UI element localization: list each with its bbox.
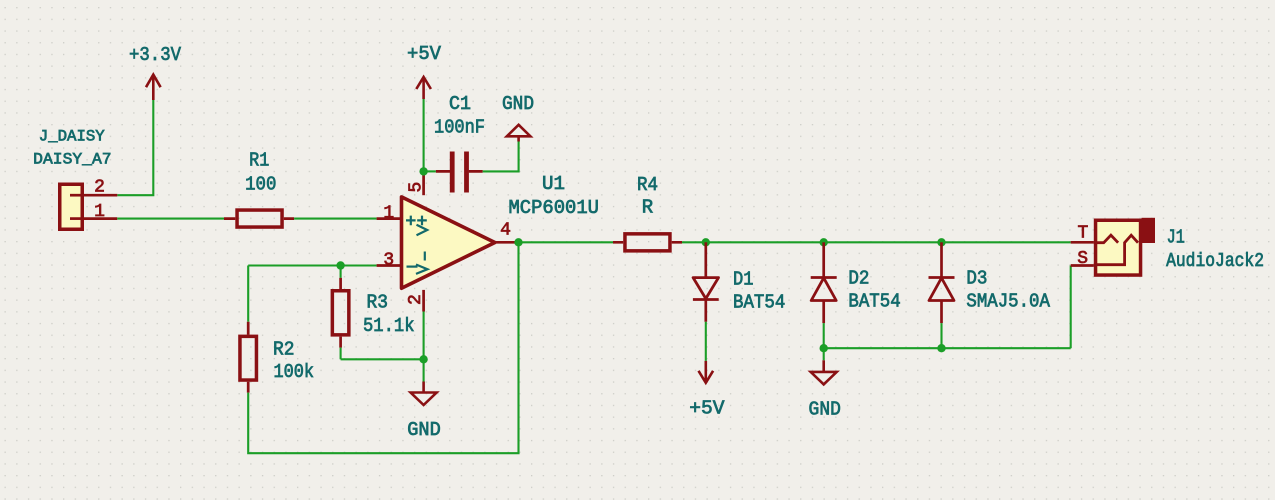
diode D1 [693, 242, 785, 321]
svg-text:R: R [642, 197, 653, 219]
ground GND (top, rotated) [502, 93, 534, 142]
junction: D2 lower [820, 344, 828, 352]
op-amp pin 4 [495, 221, 517, 243]
svg-text:4: 4 [500, 221, 511, 241]
resistor R1 [224, 150, 294, 227]
power +5V (down) [689, 361, 725, 419]
svg-text:BAT54: BAT54 [848, 291, 900, 313]
diode D2 [811, 242, 901, 323]
op-amp pin 3 [377, 251, 400, 271]
svg-text:1: 1 [383, 204, 394, 224]
minus input marker [407, 266, 418, 268]
junction: D3 lower [937, 344, 945, 352]
svg-text:BAT54: BAT54 [733, 292, 785, 314]
plus input marker [406, 216, 416, 226]
wire: feedback left drop to R2 [247, 266, 249, 322]
svg-text:GND: GND [407, 419, 441, 441]
J1 pin S [1071, 249, 1094, 269]
svg-text:R1: R1 [249, 150, 269, 172]
ground GND (below D2) [809, 360, 841, 420]
svg-text:100k: 100k [274, 361, 315, 383]
J1 pin T [1071, 224, 1094, 244]
pin name V+ (rotated) [417, 216, 428, 236]
svg-text:SMAJ5.0A: SMAJ5.0A [966, 291, 1050, 313]
resistor R2 [240, 322, 314, 393]
svg-text:GND: GND [809, 398, 841, 420]
svg-text:2: 2 [406, 294, 426, 305]
junction: pin5 / C1 [419, 167, 427, 175]
junction: pin2 / R3 / GND [419, 355, 427, 363]
J_DAISY pin 2 [70, 178, 117, 198]
junction: R3 top / pin3 [336, 261, 344, 269]
op-amp pin 1 [377, 204, 400, 224]
resistor R4 [613, 174, 682, 251]
junction: D2 [820, 238, 828, 246]
power +5V (top) [407, 43, 441, 99]
wire: D3 to lower rail [940, 323, 942, 348]
wire: D2 junction to GND [823, 348, 825, 360]
wire: R1 to op-amp pin 1 [294, 218, 377, 220]
wire: R3 bottom to junction [341, 358, 424, 360]
wire: J_DAISY pin2 to +3.3V riser [117, 100, 153, 195]
J_DAISY pin 1 [70, 202, 117, 222]
svg-text:D3: D3 [966, 268, 987, 290]
svg-text:+3.3V: +3.3V [129, 44, 181, 66]
junction: D1 [702, 238, 710, 246]
svg-text:+5V: +5V [407, 43, 441, 65]
connector J1 AudioJack2 [1094, 218, 1264, 275]
svg-text:S: S [1077, 249, 1088, 269]
capacitor C1 [434, 93, 485, 193]
svg-text:T: T [1077, 224, 1088, 244]
svg-text:5: 5 [407, 182, 427, 193]
svg-text:R2: R2 [273, 339, 295, 361]
svg-text:D1: D1 [733, 268, 754, 290]
wire: junction to C1 left pin [424, 170, 436, 172]
wire: junction to GND symbol [423, 359, 425, 381]
svg-text:R4: R4 [637, 174, 658, 196]
wire: C1 right pin to GND [483, 142, 519, 172]
op-amp U1 [402, 173, 600, 288]
wire: lower rail [824, 347, 1071, 349]
ground GND (below op-amp) [407, 382, 441, 441]
svg-text:1: 1 [94, 202, 105, 222]
svg-text:51.1k: 51.1k [363, 315, 415, 337]
svg-text:100nF: 100nF [434, 117, 485, 139]
svg-text:3: 3 [383, 251, 394, 271]
svg-text:J_DAISY: J_DAISY [39, 128, 106, 146]
svg-text:D2: D2 [848, 268, 869, 290]
wire: output to R4 [517, 241, 613, 243]
svg-text:MCP6001U: MCP6001U [509, 197, 600, 219]
junction: D3 [937, 238, 945, 246]
wire: J_DAISY pin1 to R1 [117, 218, 224, 220]
svg-text:100: 100 [245, 174, 276, 196]
wire: D2 to lower rail [823, 323, 825, 348]
wire: R4 to audio jack T [682, 241, 1071, 243]
op-amp pin 2 [406, 290, 426, 312]
connector J_DAISY [33, 128, 111, 230]
svg-text:U1: U1 [542, 173, 565, 195]
wire: lower rail up to jack S [1070, 266, 1072, 349]
svg-text:C1: C1 [449, 93, 471, 115]
resistor R3 [332, 266, 414, 360]
diode D3 [929, 242, 1051, 323]
wire: +5V riser to pin5/C1 junction [423, 99, 425, 171]
wire: R2 bottom feedback loop to output [248, 242, 518, 453]
svg-text:J1: J1 [1167, 227, 1185, 249]
svg-text:2: 2 [94, 178, 105, 198]
power +3.3V [129, 44, 181, 100]
wire: op-amp pin2 down to GND junction [423, 312, 425, 360]
svg-text:R3: R3 [367, 292, 389, 314]
pin name V- (rotated) [416, 252, 428, 274]
wire: inverting input row [248, 264, 376, 266]
svg-text:AudioJack2: AudioJack2 [1166, 250, 1264, 272]
svg-text:DAISY_A7: DAISY_A7 [33, 150, 111, 168]
junction: output node [514, 238, 522, 246]
svg-text:+5V: +5V [689, 397, 725, 419]
op-amp pin 5 [407, 171, 427, 195]
wire: D1 to +5V [705, 322, 707, 361]
svg-text:GND: GND [502, 93, 534, 115]
